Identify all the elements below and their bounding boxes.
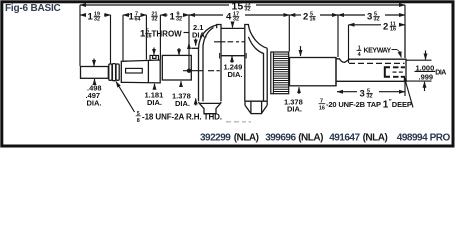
crankshaft PTO stub: [81, 67, 109, 79]
label 1.181 DIA: [145, 91, 164, 108]
taper block: [121, 60, 160, 83]
dim 4 17/32: [189, 14, 289, 16]
dim 3 5/32 top: [338, 14, 405, 16]
keyway hidden line: [349, 62, 405, 64]
svg-text:16: 16: [390, 26, 396, 32]
label 1 5/16 THROW with leader: [140, 29, 182, 40]
fraction bars: [94, 6, 397, 94]
svg-text:(NLA): (NLA): [363, 133, 388, 144]
svg-text:399696: 399696: [265, 133, 296, 144]
svg-text:DEEP: DEEP: [392, 100, 412, 109]
end face extension lines: [406, 60, 432, 81]
svg-text:DIA: DIA: [435, 69, 446, 76]
leader to tapped hole: [404, 76, 413, 108]
centerline crankpin dashes: [214, 41, 245, 43]
svg-text:1: 1: [170, 12, 176, 23]
dim 3 5/32 bottom: [337, 82, 405, 97]
svg-text:32: 32: [367, 93, 373, 99]
magneto side 1.378 journal: [290, 58, 337, 86]
svg-text:2: 2: [303, 12, 308, 23]
svg-text:32: 32: [94, 17, 100, 23]
tapped hole hidden outline: [385, 67, 390, 77]
1.249 DIA callout: [231, 56, 233, 63]
dim 2 5/16: [289, 15, 338, 57]
svg-text:DIA.: DIA.: [147, 98, 162, 107]
svg-text:32: 32: [245, 7, 251, 13]
dim 2 11/16: [349, 25, 406, 63]
label 1/4 KEYWAY with leader: [358, 45, 392, 58]
web hub ledge: [191, 47, 198, 49]
svg-text:392299: 392299: [200, 133, 231, 144]
main bearing cylinder: [162, 55, 191, 80]
svg-text:.999: .999: [419, 72, 434, 81]
svg-text:(NLA): (NLA): [298, 133, 323, 144]
svg-text:1.000: 1.000: [416, 63, 435, 72]
label 5/8-18 UNF-2A R.H. THD.: [137, 111, 222, 124]
frame border: [2, 2, 453, 146]
svg-text:(NLA): (NLA): [234, 133, 259, 144]
label 1.378 DIA right: [284, 98, 303, 114]
svg-text:4: 4: [358, 52, 361, 58]
leader 5/8 thread: [116, 82, 135, 113]
spline gear section: [271, 52, 289, 94]
1.378 left lower arrow: [180, 81, 182, 87]
centerline main dashes: [183, 70, 220, 72]
dim 1 7/64: [123, 15, 146, 61]
stub dia arrow below: [94, 79, 96, 85]
svg-text:64: 64: [135, 17, 141, 23]
dim 15 13/32 overall: [80, 5, 405, 66]
dim 1 19/32: [80, 15, 111, 64]
threaded collar rings: [109, 64, 119, 81]
flywheel end shaft: [336, 58, 406, 86]
groove tab on top: [150, 55, 159, 60]
svg-text:16: 16: [310, 17, 316, 23]
svg-text:491647: 491647: [329, 133, 360, 144]
svg-text:8: 8: [137, 118, 140, 124]
svg-text:KEYWAY: KEYWAY: [364, 48, 392, 55]
svg-text:32: 32: [233, 17, 239, 23]
down arrow onto cylinder top (1.378 upper arrow): [178, 48, 180, 55]
crankpin: [220, 28, 247, 58]
label 1.378 DIA left: [172, 92, 191, 109]
1.000/.999 DIA callout: [415, 51, 436, 92]
svg-text:32: 32: [152, 17, 158, 23]
stub dia arrow above: [93, 59, 95, 67]
svg-text:32: 32: [176, 17, 182, 23]
svg-text:THROW: THROW: [152, 30, 183, 39]
svg-text:Fig-6 BASIC: Fig-6 BASIC: [5, 3, 61, 14]
svg-text:DIA.: DIA.: [287, 105, 302, 114]
svg-text:PRO: PRO: [430, 133, 451, 144]
svg-text:2: 2: [383, 21, 388, 32]
crank web left: [199, 25, 222, 114]
svg-text:3: 3: [367, 12, 372, 23]
svg-text:DIA.: DIA.: [228, 70, 243, 79]
1.378 right lower arrow: [298, 87, 300, 94]
down arrow onto groove tab (1.181 upper arrow): [153, 48, 155, 55]
down arrow onto crankpin top: [232, 22, 234, 28]
svg-text:4: 4: [226, 12, 232, 23]
svg-text:16: 16: [319, 106, 325, 112]
crank web right: [245, 25, 267, 114]
part numbers row: [200, 133, 450, 144]
dim 21/32: [152, 12, 158, 23]
svg-text:-20 UNF-2B TAP: -20 UNF-2B TAP: [326, 100, 381, 109]
label 2.1 DIA: [192, 23, 207, 40]
svg-text:DIA.: DIA.: [175, 99, 190, 108]
dim 1 9/32: [160, 14, 189, 16]
title Fig-6 BASIC: [5, 3, 61, 14]
label 7/16-20 UNF-2B TAP 1" DEEP: [319, 99, 412, 112]
svg-text:3: 3: [360, 89, 365, 100]
svg-text:1: 1: [88, 12, 94, 23]
throw extension line with dot: [187, 15, 191, 73]
label .498/.497 DIA: [86, 84, 102, 108]
svg-text:DIA.: DIA.: [87, 99, 102, 108]
svg-text:498994: 498994: [397, 133, 428, 144]
1.181 lower arrow: [154, 84, 156, 90]
svg-text:32: 32: [374, 17, 380, 23]
web bottom arrow: [195, 99, 197, 106]
keyway slot in taper: [126, 68, 143, 73]
bdc gray dashes: [226, 121, 251, 123]
1.378 right upper arrow: [300, 46, 302, 56]
